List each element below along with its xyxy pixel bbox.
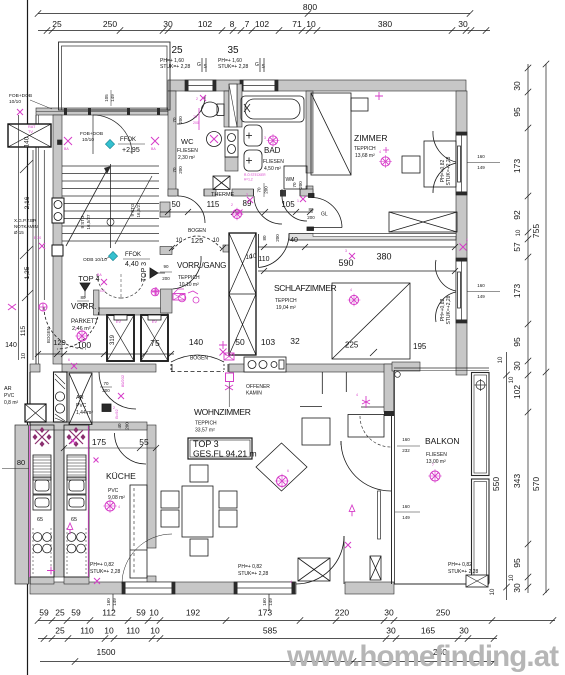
- svg-text:160: 160: [106, 598, 111, 606]
- svg-text:OFFENER: OFFENER: [246, 384, 270, 390]
- svg-text:8: 8: [230, 19, 235, 29]
- svg-text:EV: EV: [152, 320, 158, 324]
- svg-text:30: 30: [163, 19, 173, 29]
- pink triangles wohnzimmer: [67, 523, 73, 529]
- dashed arcs near couch: [360, 416, 391, 447]
- BOGEN arc corridor: [172, 236, 223, 250]
- svg-text:343: 343: [512, 474, 522, 488]
- crossed sideboard bottom: [298, 558, 330, 581]
- corridor north wall segments y188-196: [168, 189, 178, 196]
- pink switch + leader wohnzimmer: [226, 373, 234, 382]
- svg-text:200: 200: [79, 302, 87, 307]
- corridor door arc right: [282, 196, 307, 221]
- svg-text:125: 125: [191, 236, 204, 245]
- svg-text:2: 2: [246, 193, 248, 197]
- pink circle left strip: [39, 303, 47, 311]
- svg-text:STUK=+ 2,28: STUK=+ 2,28: [160, 64, 191, 70]
- svg-text:4: 4: [290, 580, 292, 584]
- svg-text:70: 70: [172, 167, 177, 173]
- balcony glass line: [391, 414, 393, 584]
- window BAD north: [240, 80, 278, 91]
- upper hall door arc: [93, 115, 132, 154]
- svg-text:75: 75: [150, 338, 160, 348]
- svg-text:149: 149: [477, 165, 485, 170]
- svg-text:ZIMMER: ZIMMER: [354, 133, 388, 143]
- teal diamond lower landing: [108, 251, 117, 260]
- svg-text:BA: BA: [97, 273, 102, 277]
- svg-text:160: 160: [402, 504, 410, 509]
- kitchen wall between counters: [54, 425, 64, 577]
- svg-text:FFOK: FFOK: [120, 137, 136, 143]
- wall south exterior: [30, 582, 296, 594]
- svg-text:6: 6: [68, 358, 70, 362]
- wall east exterior: [456, 91, 467, 375]
- wall corridor south w: [160, 247, 172, 255]
- wall north (WC/BAD/ZIMMER): [168, 80, 466, 91]
- svg-text:70: 70: [172, 117, 177, 123]
- svg-text:0,8 m²: 0,8 m²: [4, 400, 19, 406]
- svg-text:112: 112: [102, 608, 116, 618]
- svg-text:PH=+ 0,82: PH=+ 0,82: [448, 562, 472, 568]
- svg-text:110: 110: [258, 256, 269, 263]
- svg-text:30: 30: [458, 19, 468, 29]
- svg-text:10: 10: [150, 626, 160, 636]
- balcony window in glass: [378, 491, 381, 539]
- svg-text:129: 129: [53, 338, 66, 347]
- svg-text:95: 95: [512, 558, 522, 568]
- svg-text:2: 2: [231, 203, 233, 207]
- pink marks bottom wall: [94, 578, 100, 584]
- svg-text:380: 380: [376, 252, 391, 262]
- svg-text:10: 10: [213, 238, 220, 244]
- chimney shaft column: [229, 233, 256, 355]
- TOP3 label box: [188, 438, 252, 459]
- svg-text:10: 10: [306, 19, 316, 29]
- svg-text:1,25: 1,25: [24, 266, 31, 279]
- bottom dim row2: [38, 638, 497, 640]
- vent shaft diagonal: [229, 84, 237, 127]
- svg-text:319: 319: [110, 334, 116, 345]
- svg-text:25: 25: [55, 626, 65, 636]
- stair treads: [62, 165, 159, 167]
- svg-text:10: 10: [516, 229, 522, 236]
- wall BAD/Zimmer upper: [306, 91, 313, 173]
- NOTKAMIN shaft box: [8, 124, 51, 147]
- svg-text:70: 70: [257, 187, 262, 193]
- svg-text:2,16: 2,16: [24, 196, 31, 209]
- svg-text:G: G: [255, 62, 259, 68]
- svg-text:149: 149: [477, 294, 485, 299]
- bottom dim row3: [40, 661, 497, 663]
- wall Schlafzimmer south: [229, 364, 392, 372]
- svg-text:80/202: 80/202: [120, 374, 125, 387]
- svg-text:BOGEN: BOGEN: [188, 228, 206, 234]
- svg-text:40: 40: [290, 237, 298, 244]
- wall Kueche/Wohnzimmer: [147, 425, 156, 548]
- svg-text:105: 105: [281, 200, 295, 209]
- svg-text:115: 115: [207, 200, 220, 209]
- svg-text:80: 80: [308, 207, 314, 212]
- svg-text:10: 10: [104, 626, 114, 636]
- svg-text:9 STG: 9 STG: [80, 215, 85, 229]
- svg-text:200: 200: [298, 181, 303, 189]
- svg-text:200: 200: [307, 215, 315, 220]
- svg-text:35: 35: [227, 45, 239, 56]
- window marks stair hall north wall: [64, 108, 67, 115]
- svg-text:TOP 3: TOP 3: [193, 439, 219, 449]
- svg-text:200: 200: [193, 121, 199, 125]
- diamond table: [256, 443, 307, 491]
- svg-text:E 30: E 30: [34, 236, 41, 240]
- Schlafzimmer bed: [332, 283, 410, 359]
- svg-text:B=92: B=92: [114, 408, 119, 418]
- svg-text:10/10: 10/10: [82, 137, 94, 143]
- wall above elevators: [99, 308, 168, 315]
- svg-text:1: 1: [297, 199, 299, 203]
- Schlafzimmer window door arc: [435, 260, 456, 291]
- svg-text:95: 95: [512, 337, 522, 347]
- svg-text:2,30 m²: 2,30 m²: [178, 155, 195, 161]
- svg-text:71: 71: [292, 19, 302, 29]
- svg-text:40: 40: [117, 423, 122, 429]
- Zimmer window door arc: [433, 131, 456, 162]
- svg-text:BA: BA: [151, 147, 156, 151]
- window east Schlafzimmer: [456, 258, 467, 323]
- Zimmer nightstand: [402, 156, 420, 173]
- courtyard double rect: [59, 42, 171, 110]
- svg-text:59: 59: [39, 608, 49, 618]
- pink symbols WC: [210, 135, 218, 143]
- dining table: [182, 486, 213, 537]
- pink mark zimmer top: [375, 92, 383, 100]
- BAD door arc: [254, 196, 282, 224]
- svg-text:173: 173: [512, 284, 522, 298]
- svg-text:TOP 3: TOP 3: [141, 262, 148, 282]
- pink marks elevator bottom: [220, 349, 227, 356]
- svg-text:59: 59: [136, 608, 146, 618]
- window WC north: [185, 80, 216, 91]
- svg-text:PVC: PVC: [4, 393, 15, 399]
- svg-text:57: 57: [512, 242, 522, 252]
- svg-text:STUK=+ 2,28: STUK=+ 2,28: [90, 569, 121, 575]
- svg-text:232: 232: [402, 448, 410, 453]
- WM box: [284, 166, 307, 189]
- svg-text:80: 80: [17, 458, 25, 467]
- kitchen bottom jambs: [30, 577, 54, 584]
- svg-text:102: 102: [198, 19, 212, 29]
- svg-text:G: G: [197, 62, 201, 68]
- wall SE corner chunk: [384, 364, 394, 412]
- svg-text:TEPPICH: TEPPICH: [275, 298, 297, 304]
- pink near bogen lower left: [71, 363, 77, 369]
- svg-text:PVC: PVC: [76, 403, 87, 409]
- svg-text:25: 25: [55, 608, 65, 618]
- svg-text:160: 160: [477, 283, 485, 288]
- svg-text:STUK=+2,28: STUK=+2,28: [446, 295, 452, 324]
- svg-text:PH=+ 0,82: PH=+ 0,82: [90, 562, 114, 568]
- svg-text:EV: EV: [116, 320, 122, 324]
- svg-text:16,5/27: 16,5/27: [86, 214, 91, 230]
- svg-text:200: 200: [102, 388, 110, 393]
- sink unit: [225, 130, 238, 157]
- svg-text:WC: WC: [181, 137, 194, 146]
- svg-text:65: 65: [37, 517, 43, 523]
- svg-text:50: 50: [235, 337, 245, 347]
- svg-text:10: 10: [21, 353, 27, 359]
- svg-text:55: 55: [139, 437, 149, 447]
- pink circle-x wohnzimmer diamond: [277, 476, 288, 487]
- svg-text:102: 102: [255, 19, 269, 29]
- TOP3 entry door arc: [173, 256, 202, 289]
- kitchen door arc: [99, 372, 136, 409]
- top dim 800: [38, 13, 470, 15]
- svg-text:200: 200: [275, 234, 280, 242]
- svg-text:FOB+DOB: FOB+DOB: [9, 93, 32, 99]
- svg-text:80: 80: [80, 295, 86, 300]
- svg-text:25: 25: [52, 19, 62, 29]
- svg-text:200: 200: [162, 276, 170, 281]
- window south 1: [122, 582, 175, 594]
- svg-text:X.G.P.T.BR: X.G.P.T.BR: [14, 218, 37, 223]
- svg-text:RAT: RAT: [28, 125, 36, 129]
- svg-text:G4: G4: [100, 289, 105, 293]
- balcony door arc: [341, 441, 391, 491]
- svg-text:SCHLAFZIMMER: SCHLAFZIMMER: [274, 283, 337, 293]
- svg-text:550: 550: [491, 477, 501, 491]
- svg-text:9 STG: 9 STG: [130, 203, 135, 217]
- svg-text:103: 103: [261, 337, 275, 347]
- BAD basin 1: [244, 125, 262, 146]
- svg-text:FLIESEN: FLIESEN: [426, 452, 447, 458]
- teal diamond upper landing: [105, 139, 114, 148]
- shaft box 2 left lower: [25, 404, 46, 422]
- wardrobe crossed: [389, 212, 457, 232]
- svg-text:220: 220: [335, 608, 349, 618]
- right chain outer 755/570: [545, 64, 547, 593]
- svg-text:Ø 15: Ø 15: [14, 230, 24, 235]
- svg-text:4,40: 4,40: [125, 261, 139, 268]
- THERME box: [213, 176, 230, 190]
- svg-text:380: 380: [378, 19, 392, 29]
- svg-text:105: 105: [104, 94, 109, 102]
- kitchen counter left: [30, 425, 54, 577]
- pink mark couch: [362, 396, 370, 408]
- pink circle-x Zimmer: [381, 157, 390, 166]
- svg-text:BA: BA: [64, 147, 69, 151]
- svg-text:STUK=+2,28: STUK=+2,28: [446, 156, 452, 185]
- WC toilet: [202, 102, 219, 117]
- balcony outline top/bottom: [394, 367, 489, 369]
- svg-text:BAD: BAD: [264, 146, 281, 155]
- svg-text:90: 90: [163, 264, 169, 269]
- svg-text:10,10 m²: 10,10 m²: [179, 282, 199, 288]
- svg-text:95: 95: [512, 107, 522, 117]
- crossed box bottom of railing: [466, 575, 488, 587]
- svg-text:9,08 m²: 9,08 m²: [108, 495, 125, 501]
- fridge dashed: [130, 485, 147, 578]
- svg-text:4: 4: [379, 150, 381, 154]
- svg-text:16,5/27: 16,5/27: [136, 202, 141, 218]
- TOP3 door triangle: [150, 268, 158, 278]
- wall vorraum south: [62, 364, 156, 372]
- svg-text:173: 173: [512, 159, 522, 173]
- svg-text:92: 92: [512, 210, 522, 220]
- AR room crossed: [69, 373, 92, 425]
- vorraum dim line: [36, 353, 174, 355]
- svg-text:FOB+DOB: FOB+DOB: [80, 131, 103, 137]
- BAD basin 2: [244, 150, 262, 171]
- svg-text:AR: AR: [76, 395, 84, 401]
- svg-text:10: 10: [250, 254, 257, 260]
- svg-text:ODB 10/10: ODB 10/10: [83, 257, 107, 263]
- svg-text:2: 2: [196, 97, 198, 101]
- svg-text:200: 200: [178, 116, 183, 124]
- svg-text:10: 10: [176, 238, 183, 244]
- elevator shaft 1: [107, 315, 134, 361]
- svg-text:800: 800: [303, 2, 317, 12]
- svg-text:VORR./GANG: VORR./GANG: [177, 261, 226, 270]
- pink circle-x BAD: [268, 136, 277, 145]
- svg-text:19,04 m²: 19,04 m²: [276, 305, 296, 311]
- svg-text:173: 173: [258, 608, 272, 618]
- pink near kitchen left counters: [94, 458, 99, 463]
- svg-text:195: 195: [413, 342, 427, 351]
- svg-text:3: 3: [345, 249, 347, 253]
- pink circle-x balkon: [430, 471, 440, 481]
- wall AR south / kitchen north: [30, 422, 147, 430]
- svg-text:10: 10: [490, 588, 496, 595]
- top dim row2: [38, 30, 490, 32]
- left edge wall lower: [29, 372, 31, 584]
- svg-text:PH=+ 0,82: PH=+ 0,82: [238, 564, 262, 570]
- svg-text:STUK=+ 2,28: STUK=+ 2,28: [238, 571, 269, 577]
- wall west of WC: [168, 91, 176, 196]
- svg-text:140: 140: [189, 337, 203, 347]
- svg-text:STUK=+ 2,28: STUK=+ 2,28: [218, 64, 249, 70]
- page border left: [27, 0, 29, 675]
- svg-text:KÜCHE: KÜCHE: [106, 471, 136, 481]
- Schlafzimmer interior dim: [258, 246, 456, 248]
- svg-text:149: 149: [402, 515, 410, 520]
- svg-text:THERME: THERME: [211, 192, 235, 198]
- wall west stairwell: [53, 115, 62, 364]
- crossed box at glass wall bottom: [370, 556, 381, 580]
- svg-text:30: 30: [386, 626, 396, 636]
- bottom dim row1: [38, 620, 555, 622]
- svg-text:160: 160: [477, 154, 485, 159]
- svg-text:6: 6: [287, 469, 289, 473]
- svg-text:PVC: PVC: [108, 488, 119, 494]
- svg-text:1500: 1500: [97, 647, 116, 657]
- wall shaft/BAD: [237, 84, 242, 127]
- elevator shaft 2: [141, 315, 168, 361]
- svg-text:32: 32: [290, 336, 300, 346]
- svg-text:BOGEN: BOGEN: [46, 327, 51, 343]
- svg-text:250: 250: [103, 19, 117, 29]
- svg-text:70: 70: [103, 381, 109, 386]
- svg-text:AR: AR: [4, 386, 12, 392]
- balcony railing upper: [472, 373, 490, 476]
- balcony railing lower: [472, 479, 490, 583]
- svg-text:59: 59: [71, 608, 81, 618]
- svg-text:80: 80: [262, 235, 267, 241]
- entry double door dashed: [97, 274, 121, 298]
- svg-text:10/10: 10/10: [9, 99, 21, 105]
- pink marks corridor: [233, 210, 242, 219]
- svg-text:WM: WM: [286, 177, 295, 183]
- BOGEN wall ticks: [169, 245, 175, 251]
- svg-text:225: 225: [345, 341, 359, 350]
- svg-text:13,68 m²: 13,68 m²: [355, 153, 375, 159]
- svg-text:4: 4: [118, 505, 120, 509]
- svg-text:NOTKAMIN: NOTKAMIN: [14, 224, 38, 229]
- svg-text:30: 30: [512, 81, 522, 91]
- svg-text:160: 160: [262, 598, 267, 606]
- AR duct boxes: [54, 372, 68, 422]
- Zimmer desk: [424, 141, 456, 187]
- window east Zimmer: [456, 132, 467, 195]
- svg-text:70: 70: [292, 182, 297, 188]
- svg-text:PARKETT: PARKETT: [71, 319, 99, 325]
- window south 2: [234, 582, 295, 594]
- right chain middle: [527, 64, 529, 593]
- pink wheelchair cluster vorr/gang: [178, 294, 186, 302]
- svg-text:www.homefinding.at: www.homefinding.at: [286, 640, 559, 673]
- kitchen top dim line: [64, 447, 156, 449]
- wall WC/shaft: [224, 91, 229, 127]
- svg-text:25: 25: [171, 45, 183, 56]
- svg-text:200: 200: [125, 422, 130, 430]
- svg-text:585: 585: [263, 626, 277, 636]
- svg-text:70: 70: [193, 115, 197, 119]
- svg-text:30: 30: [384, 608, 394, 618]
- Zimmer bed: [311, 93, 351, 175]
- TOP4 door triangle: [80, 283, 90, 291]
- svg-text:G: G: [155, 293, 158, 297]
- svg-text:110: 110: [126, 626, 140, 636]
- svg-text:30: 30: [512, 583, 522, 593]
- svg-text:102: 102: [512, 385, 522, 399]
- svg-text:140: 140: [5, 342, 17, 349]
- svg-text:FLIESEN: FLIESEN: [263, 159, 284, 165]
- svg-text:30: 30: [459, 626, 469, 636]
- svg-text:110: 110: [80, 626, 94, 636]
- WC basin: [207, 132, 222, 147]
- svg-text:140: 140: [24, 136, 31, 147]
- svg-text:4: 4: [350, 288, 352, 292]
- svg-text:TEPPICH: TEPPICH: [178, 275, 200, 281]
- svg-text:10: 10: [149, 608, 159, 618]
- fireplace unit: [244, 357, 286, 372]
- svg-text:FLIESEN: FLIESEN: [177, 148, 198, 154]
- armchair: [302, 418, 330, 445]
- BOGEN arc wohnzimmer top: [171, 355, 224, 362]
- svg-text:4: 4: [356, 393, 358, 397]
- svg-text:STUK=+ 2,28: STUK=+ 2,28: [448, 569, 479, 575]
- svg-text:1,44 m²: 1,44 m²: [76, 410, 93, 416]
- Zimmer door arc from corridor: [312, 198, 343, 228]
- svg-text:WOHNZIMMER: WOHNZIMMER: [194, 407, 251, 417]
- south door arc 2 kitchen window side: [122, 534, 172, 584]
- svg-text:TV: TV: [28, 130, 33, 134]
- svg-text:R.Ö STECKER: R.Ö STECKER: [244, 173, 266, 177]
- WC door arc: [177, 96, 205, 124]
- right chain inner (balcony 550): [506, 352, 508, 600]
- svg-text:175: 175: [92, 437, 106, 447]
- pink counter edge lines: [29, 426, 31, 577]
- svg-text:33,57 m²: 33,57 m²: [195, 428, 215, 434]
- vorraum entry arcs dashed: [44, 307, 86, 349]
